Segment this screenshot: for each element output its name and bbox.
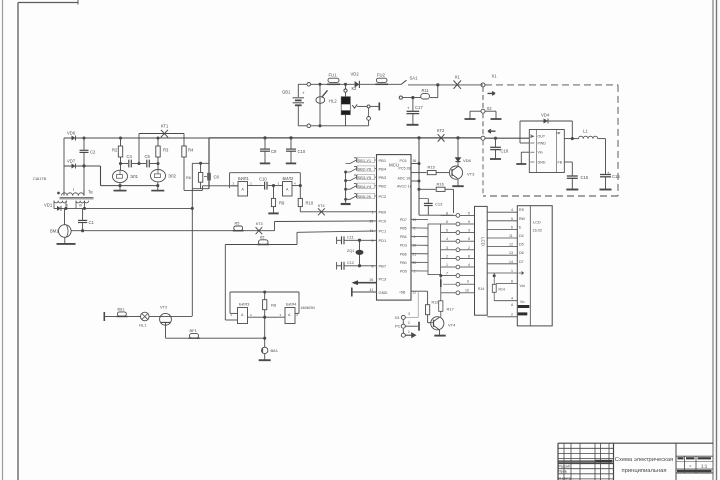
svg-text:2: 2 [250, 182, 252, 186]
svg-text:PD3: PD3 [400, 244, 407, 248]
svg-text:КТ2: КТ2 [437, 128, 445, 133]
svg-text:HL1: HL1 [139, 323, 147, 328]
svg-text:VT4: VT4 [448, 323, 456, 328]
svg-text:ВА1: ВА1 [271, 348, 279, 353]
svg-text:А: А [242, 188, 245, 192]
svg-text:4: 4 [511, 297, 513, 301]
svg-text:Тв: Тв [88, 190, 93, 195]
svg-text:36: 36 [413, 159, 417, 163]
svg-text:PB6: PB6 [400, 252, 407, 256]
svg-text:PB4: PB4 [379, 166, 387, 171]
svg-text:SB3-У5: SB3-У5 [358, 175, 372, 180]
svg-text:SB5-26: SB5-26 [358, 194, 372, 199]
svg-text:MCU: MCU [389, 163, 399, 168]
svg-text:11: 11 [509, 234, 513, 238]
svg-text:PC3: PC3 [379, 277, 388, 282]
svg-text:=: = [689, 463, 692, 468]
svg-text:FB: FB [558, 160, 563, 164]
svg-text:2: 2 [446, 254, 448, 258]
svg-text:Vol: Vol [520, 284, 525, 288]
svg-text:К2: К2 [352, 86, 357, 91]
svg-text:3: 3 [233, 182, 235, 186]
svg-text:C10: C10 [298, 149, 306, 154]
svg-text:C15: C15 [581, 175, 589, 180]
svg-text:8: 8 [372, 264, 374, 268]
svg-text:PD5: PD5 [400, 270, 407, 274]
svg-text:Vo: Vo [520, 300, 524, 304]
svg-text:R6: R6 [186, 176, 191, 180]
svg-text:КТ3: КТ3 [256, 222, 263, 226]
svg-text:A: A [511, 303, 514, 307]
svg-text:PB1: PB1 [379, 158, 387, 163]
svg-text:СШ1ТВ: СШ1ТВ [33, 177, 47, 181]
svg-text:Разраб.: Разраб. [559, 465, 571, 469]
svg-text:4606ЛМ: 4606ЛМ [301, 306, 315, 310]
svg-text:D7: D7 [519, 260, 524, 264]
svg-text:+5В: +5В [399, 291, 406, 295]
svg-text:PC2: PC2 [379, 194, 388, 199]
svg-text:BM1: BM1 [50, 229, 59, 234]
svg-text:C2: C2 [90, 150, 96, 155]
svg-text:R15: R15 [428, 165, 436, 170]
svg-text:4: 4 [294, 182, 296, 186]
svg-text:6: 6 [468, 237, 470, 241]
svg-text:3: 3 [280, 313, 282, 317]
svg-text:C11: C11 [347, 235, 354, 239]
svg-text:PB3: PB3 [379, 175, 387, 180]
svg-text:SA1: SA1 [410, 76, 419, 81]
svg-text:C5: C5 [145, 154, 151, 159]
svg-text:PC1: PC1 [379, 229, 388, 234]
svg-text:D6: D6 [519, 251, 524, 255]
svg-text:29: 29 [370, 219, 374, 223]
svg-text:GND: GND [379, 290, 388, 295]
svg-text:КТ1: КТ1 [161, 124, 169, 129]
svg-text:PB0: PB0 [400, 261, 407, 265]
svg-text:3: 3 [446, 246, 448, 250]
svg-text:К5: К5 [260, 235, 264, 239]
svg-text:1: 1 [511, 269, 513, 273]
svg-text:Схема электрическая: Схема электрическая [615, 457, 673, 463]
svg-text:PB7: PB7 [379, 264, 387, 269]
svg-text:C8: C8 [214, 175, 220, 180]
svg-text:LCD: LCD [533, 221, 541, 225]
svg-text:VT3: VT3 [467, 172, 475, 177]
svg-text:+: + [407, 106, 410, 111]
svg-text:PC5 28: PC5 28 [399, 167, 411, 171]
svg-text:R14: R14 [478, 287, 484, 291]
svg-text:+: + [607, 171, 610, 176]
svg-text:C12: C12 [347, 261, 354, 265]
svg-text:3: 3 [408, 312, 410, 316]
svg-text:ЗВ1: ЗВ1 [117, 306, 125, 311]
svg-text:P: P [558, 132, 561, 136]
svg-text:GB1: GB1 [282, 90, 291, 95]
svg-text:14: 14 [413, 218, 417, 222]
svg-text:8: 8 [511, 279, 513, 283]
svg-text:Пров.: Пров. [559, 470, 568, 474]
svg-text:16.02: 16.02 [533, 229, 543, 233]
svg-text:ZQ1: ZQ1 [347, 249, 354, 253]
svg-text:PC6: PC6 [400, 159, 407, 163]
svg-text:PB0: PB0 [379, 210, 387, 215]
svg-text:R17: R17 [447, 307, 455, 312]
svg-text:5: 5 [414, 227, 416, 231]
svg-text:R11: R11 [422, 88, 430, 93]
svg-text:PWD: PWD [538, 142, 547, 146]
svg-text:C4: C4 [127, 154, 133, 159]
svg-text:Vin: Vin [538, 151, 543, 155]
svg-text:КТ4: КТ4 [318, 204, 325, 208]
svg-text:8: 8 [446, 211, 448, 215]
svg-text:4: 4 [414, 235, 416, 239]
svg-text:4: 4 [468, 263, 470, 267]
svg-text:2: 2 [408, 321, 410, 325]
svg-text:5: 5 [468, 211, 470, 215]
svg-text:3: 3 [468, 229, 470, 233]
svg-text:PB4: PB4 [400, 235, 407, 239]
svg-text:9: 9 [372, 239, 374, 243]
svg-text:7: 7 [446, 272, 448, 276]
svg-text:C10: C10 [259, 177, 267, 182]
svg-text:1: 1 [446, 263, 448, 267]
svg-text:1: 1 [372, 210, 374, 214]
svg-text:А: А [286, 188, 289, 192]
svg-text:C1: C1 [89, 220, 95, 225]
svg-text:41: 41 [370, 229, 374, 233]
svg-text:3: 3 [278, 182, 280, 186]
svg-text:R8: R8 [271, 303, 277, 308]
svg-text:4: 4 [446, 237, 448, 241]
svg-text:PB2: PB2 [379, 184, 387, 189]
svg-text:II: II [66, 204, 68, 208]
svg-text:X3: X3 [395, 315, 401, 320]
svg-text:1:1: 1:1 [701, 463, 708, 468]
svg-text:VD7: VD7 [67, 159, 76, 164]
svg-text:FU1: FU1 [329, 73, 338, 78]
svg-text:PD1: PD1 [379, 238, 388, 243]
svg-text:22: 22 [413, 244, 417, 248]
svg-text:10: 10 [465, 288, 469, 292]
svg-text:X1: X1 [492, 74, 498, 79]
svg-text:Н.контр.: Н.контр. [559, 477, 572, 480]
svg-text:PC: PC [395, 324, 401, 329]
svg-text:PD7: PD7 [400, 218, 407, 222]
svg-text:HL2: HL2 [329, 98, 337, 103]
svg-text:21: 21 [413, 252, 417, 256]
svg-text:R3: R3 [163, 148, 169, 153]
svg-text:К1: К1 [455, 75, 460, 80]
svg-text:12: 12 [509, 243, 513, 247]
svg-text:13: 13 [509, 251, 513, 255]
svg-text:9: 9 [467, 280, 469, 284]
svg-text:BF1: BF1 [190, 328, 198, 333]
svg-text:БИЛ4: БИЛ4 [286, 302, 297, 307]
svg-text:ЭЛ1: ЭЛ1 [130, 174, 139, 179]
svg-text:RW: RW [519, 217, 526, 221]
svg-text:VD1: VD1 [44, 203, 53, 208]
svg-text:VD4: VD4 [541, 113, 550, 118]
svg-text:VD6: VD6 [67, 131, 76, 136]
svg-text:L1: L1 [583, 129, 588, 134]
svg-text:C13: C13 [435, 201, 443, 206]
svg-text:R14: R14 [499, 288, 505, 292]
svg-text:III: III [79, 204, 82, 208]
svg-text:14: 14 [509, 260, 513, 264]
svg-text:I: I [73, 187, 74, 192]
svg-text:R5: R5 [235, 222, 240, 226]
svg-text:БИЛ3: БИЛ3 [239, 302, 250, 307]
svg-text:26: 26 [370, 278, 374, 282]
svg-text:5: 5 [446, 229, 448, 233]
svg-text:R10: R10 [306, 201, 314, 206]
svg-text:41: 41 [370, 288, 374, 292]
svg-text:+: + [302, 91, 305, 96]
svg-text:6: 6 [446, 220, 448, 224]
svg-text:FU2: FU2 [377, 73, 386, 78]
svg-text:VT2: VT2 [160, 305, 168, 310]
svg-text:20: 20 [413, 261, 417, 265]
svg-text:C17: C17 [415, 105, 423, 110]
svg-text:2: 2 [250, 313, 252, 317]
svg-text:SB2-У6: SB2-У6 [358, 167, 372, 172]
svg-text:C9: C9 [271, 149, 277, 154]
svg-text:БИЛ2: БИЛ2 [283, 176, 295, 181]
svg-text:D4: D4 [519, 234, 524, 238]
svg-text:R2: R2 [112, 148, 118, 153]
svg-text:принципиальная: принципиальная [622, 468, 667, 474]
svg-text:D5: D5 [519, 243, 524, 247]
svg-text:ADC 19: ADC 19 [398, 176, 411, 180]
svg-text:R9: R9 [279, 201, 285, 206]
svg-text:R16: R16 [437, 182, 445, 187]
svg-text:БИЛ1: БИЛ1 [238, 176, 250, 181]
svg-text:9: 9 [468, 220, 470, 224]
svg-text:2: 2 [468, 246, 470, 250]
svg-text:R12: R12 [432, 301, 439, 305]
svg-text:X2: X2 [487, 106, 493, 111]
svg-text:RS: RS [519, 208, 525, 212]
svg-text:GND: GND [538, 160, 546, 164]
svg-text:E: E [519, 225, 522, 229]
svg-text:PC0: PC0 [379, 219, 388, 224]
svg-text:4: 4 [511, 208, 513, 212]
svg-text:AVCC 18: AVCC 18 [397, 185, 412, 189]
svg-text:VD2: VD2 [351, 72, 360, 77]
svg-text:OUT: OUT [538, 135, 546, 139]
svg-text:6: 6 [511, 225, 513, 229]
svg-text:1: 1 [408, 330, 410, 334]
svg-text:1: 1 [414, 270, 416, 274]
svg-text:C18: C18 [501, 149, 509, 154]
svg-text:LCD: LCD [481, 237, 486, 246]
svg-text:2: 2 [511, 313, 513, 317]
svg-text:SB4-У4: SB4-У4 [358, 184, 372, 189]
svg-text:VD8: VD8 [463, 158, 472, 163]
svg-text:R4: R4 [188, 148, 194, 153]
svg-text:8: 8 [468, 254, 470, 258]
svg-text:SB1-У1: SB1-У1 [358, 158, 372, 163]
svg-text:C16: C16 [612, 174, 620, 179]
svg-text:ЭЛ2: ЭЛ2 [168, 174, 177, 179]
svg-text:PB5: PB5 [400, 227, 407, 231]
svg-text:5: 5 [511, 217, 513, 221]
